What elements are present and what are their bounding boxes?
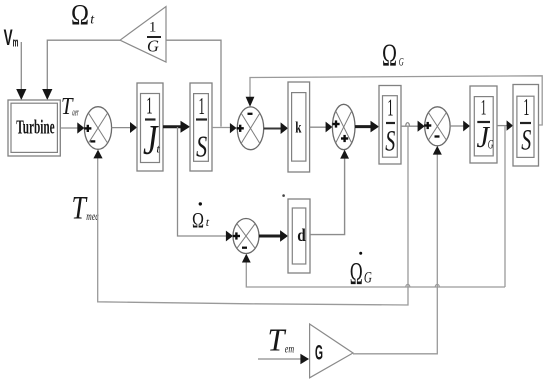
minus sign sum2 (248, 113, 253, 115)
arrowhead into k (281, 122, 288, 134)
hop on 287 line at G output vertical (435, 284, 439, 287)
block 1/Jt (137, 83, 163, 171)
svg-text:G: G (364, 270, 372, 287)
svg-text:d: d (297, 225, 306, 245)
svg-text:1: 1 (523, 95, 529, 121)
svg-text:1: 1 (481, 95, 487, 120)
plus sign sum5 (233, 232, 240, 239)
block 1/S third (513, 85, 539, 167)
label Omega_t top (71, 0, 95, 31)
plus sign sum1 (84, 125, 91, 132)
wire Omega_t tap up to 1/G input (166, 40, 221, 126)
svg-text:G: G (488, 136, 494, 151)
plus sign sum3 left (332, 120, 339, 127)
wire T_mec feedback (98, 126, 408, 305)
svg-text:1: 1 (149, 20, 157, 36)
label 1/G (147, 20, 161, 56)
block 1/JG (470, 86, 497, 163)
hop on 287 line at Tmec vertical (406, 284, 410, 287)
svg-text:S: S (385, 124, 395, 157)
wire Omega_G feedback from 1/S3 to sum2 (250, 76, 542, 125)
summing junction S5 (233, 219, 259, 254)
wire 1/G output to Turbine (47, 40, 120, 92)
plus sign sum3 bottom (341, 135, 348, 142)
block 1/S first (190, 83, 212, 171)
arrowhead T_em into G (300, 354, 309, 364)
wire k to sum3 (310, 126, 327, 128)
svg-text:T: T (268, 321, 287, 357)
svg-text:Ω: Ω (71, 0, 89, 31)
svg-text:G: G (147, 37, 159, 56)
arrowhead Omega_G into sum2 top (246, 97, 255, 107)
svg-text:V: V (4, 25, 13, 50)
arrowhead d output into sum3 bottom (340, 150, 349, 159)
svg-text:k: k (295, 119, 301, 136)
svg-text:1: 1 (146, 93, 153, 119)
svg-text:G: G (399, 55, 404, 69)
wire Turbine to sum1 (60, 127, 78, 129)
label T_aer (61, 94, 79, 120)
svg-text:1: 1 (198, 94, 205, 120)
wire sum2 to k (264, 128, 281, 130)
block Turbine (8, 100, 60, 156)
wire thick sum5 to d (259, 235, 281, 238)
label Omega_t_dot (192, 202, 210, 232)
dot above d block (282, 194, 285, 197)
arrowhead into 1/Jt (130, 122, 137, 133)
arrowhead into 1/S3 (507, 120, 513, 130)
arrowhead into sum3 (326, 122, 333, 133)
minus sign sum1 (90, 140, 95, 142)
gain 1/G triangle (120, 7, 166, 63)
gain G triangle (310, 324, 353, 378)
label Omega_G_dot (350, 252, 373, 291)
arrowhead G output into sum4 bottom (433, 146, 442, 155)
svg-text:Ω: Ω (382, 37, 397, 73)
plus sign sum2 (237, 125, 244, 132)
arrowhead T_mec into sum1 bottom (93, 150, 102, 159)
arrowhead Vm into Turbine (16, 89, 26, 100)
block d (288, 199, 310, 273)
svg-text:1: 1 (387, 96, 393, 122)
wire Vm to Turbine (20, 42, 22, 92)
summing junction S4 (425, 107, 450, 146)
svg-text:aer: aer (72, 106, 79, 118)
wire 1/JG to 1/S3 (497, 125, 508, 127)
wire Omega_G_dot horizontal to sum5 (246, 256, 505, 288)
svg-text:em: em (285, 341, 295, 355)
label T_mec (72, 190, 100, 226)
label Omega_G top right (382, 37, 404, 73)
wire 1/S2 to sum4 (401, 125, 419, 127)
svg-text:Ω: Ω (192, 208, 204, 233)
wire Omega_t_dot tap down to sum5 (178, 127, 227, 236)
arrowhead into sum2 (230, 123, 237, 133)
arrowhead thick into 1/S2 (371, 121, 380, 133)
hop junction on wire at Tmec tap (406, 123, 410, 127)
summing junction S1 (84, 107, 111, 150)
wire thick 1/Jt to 1/S1 (163, 125, 182, 128)
minus sign sum5 (242, 247, 247, 249)
svg-text:Turbine: Turbine (16, 117, 55, 139)
arrowhead Omega_G_dot into sum5 bottom (242, 254, 251, 263)
wire thick sum3 to 1/S2 (355, 125, 372, 128)
svg-text:S: S (196, 128, 207, 163)
arrowhead 1/G output into Turbine (42, 89, 52, 100)
arrowhead thick into 1/S1 (181, 121, 191, 133)
wire G output up to sum4 (353, 148, 437, 354)
arrowhead thick into d (280, 230, 288, 241)
block k (288, 82, 310, 172)
wire T_em into G triangle (258, 358, 301, 360)
label T_em (268, 321, 295, 357)
block 1/S second (379, 86, 401, 165)
wire sum4 to 1/JG (450, 125, 464, 127)
arrowhead Omega_t_dot into sum5 (226, 231, 233, 242)
wire Omega_G_dot tap down (504, 126, 506, 287)
arrowhead into sum1 (77, 122, 84, 133)
arrowhead into sum4 (418, 121, 425, 132)
arrowhead into 1/JG (463, 121, 470, 132)
svg-text:m: m (13, 35, 19, 50)
wire d output up to sum3 (310, 158, 345, 235)
minus sign sum4 (435, 135, 440, 137)
label Vm (4, 25, 19, 50)
plus sign sum4 (424, 122, 431, 129)
svg-text:S: S (521, 123, 531, 156)
svg-text:G: G (315, 341, 323, 364)
summing junction S3 (332, 104, 355, 149)
svg-text:Ω: Ω (350, 255, 363, 291)
wire sum1 to 1/Jt (112, 127, 131, 129)
wire 1/S1 to sum2 (212, 127, 231, 129)
summing junction S2 (237, 107, 263, 150)
